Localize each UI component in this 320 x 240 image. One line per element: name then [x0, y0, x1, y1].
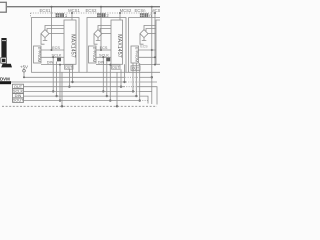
- sensor bridge diamond module 1: [41, 30, 49, 38]
- sensor bridge diamond module 2: [94, 30, 102, 38]
- svg-text:SCLK: SCLK: [99, 53, 109, 57]
- svg-text:E²PROM: E²PROM: [37, 47, 41, 62]
- junction dots module n: [151, 6, 153, 8]
- wire SCLK bus line: [24, 90, 135, 92]
- wire bridge bottom module 2: [96, 38, 101, 41]
- label OUT box module n: [131, 66, 140, 71]
- junction dots module 2: [100, 6, 102, 8]
- wire CS bus dotted top: [31, 12, 157, 14]
- svg-text:MCS2: MCS2: [120, 8, 132, 13]
- wire DOUT bus drop module 2: [109, 65, 111, 101]
- svg-text:OUT: OUT: [112, 66, 120, 70]
- wire DIN net module n: [139, 64, 157, 66]
- bus tag OUT: [13, 84, 24, 88]
- EEPROM E2PROM box module n: [131, 46, 139, 63]
- wire bridge bottom module n: [142, 38, 147, 41]
- svg-text:MAX1457: MAX1457: [116, 34, 122, 57]
- module n label: [140, 13, 148, 17]
- wire bridge INM module n: [148, 33, 156, 35]
- svg-text:OUT: OUT: [65, 66, 73, 70]
- wire OUT to DVM line drop: [72, 64, 74, 82]
- computer icon tower: [1, 38, 6, 57]
- wire +5V to VDD bus: [23, 72, 25, 77]
- DVM instrument bar: [0, 81, 11, 84]
- wire SCLK bus drop: [52, 57, 54, 91]
- wire SCLK bus drop module 2: [102, 57, 104, 91]
- module n box (clipped at right): [129, 18, 160, 73]
- wire ECSn drop: [151, 7, 153, 104]
- bus tag DOUT: [13, 98, 24, 102]
- svg-text:ECS1: ECS1: [40, 8, 52, 13]
- wire OUT bus drop module 2: [120, 69, 122, 87]
- bus tag SCLK: [13, 89, 24, 93]
- EEPROM E2PROM box module 2: [89, 46, 97, 63]
- wire bridge INM module 2: [102, 33, 111, 35]
- label OUT module 1: [65, 65, 74, 69]
- svg-text:MCS1: MCS1: [68, 8, 80, 13]
- DOUT junction block module 1: [57, 58, 61, 62]
- wire OUT bus drop: [68, 69, 70, 87]
- wire MCS1 drop: [71, 13, 73, 20]
- wire DIN net: [41, 64, 64, 66]
- svg-text:MCSn: MCSn: [151, 8, 160, 13]
- wire VDD bus line: [24, 76, 123, 78]
- computer/controller box top-left: [0, 2, 6, 12]
- wire ECS2 drop: [100, 7, 102, 50]
- module 2 box: [87, 18, 126, 73]
- wire DIN bus right bend: [140, 96, 148, 103]
- wire OUT to DVM line drop module 2: [124, 64, 126, 82]
- svg-text:DOUT: DOUT: [12, 98, 24, 103]
- wire DIN net module 2: [96, 64, 111, 66]
- wire SCLK net module 2: [96, 56, 111, 58]
- svg-text:MAX1457: MAX1457: [69, 34, 75, 57]
- wire ECS1 drop: [51, 7, 53, 50]
- wire DIN bus drop: [56, 62, 58, 97]
- module 1 label: [56, 13, 64, 17]
- module 2 label: [97, 13, 105, 17]
- EEPROM E2PROM box module 1: [34, 46, 42, 63]
- svg-text:E²PROM: E²PROM: [134, 47, 138, 62]
- wire bridge return module 2: [94, 34, 98, 45]
- wire bridge drive top: [45, 26, 64, 30]
- wire MCS2 drop: [119, 13, 121, 20]
- wire OUT bus right bend: [137, 87, 157, 105]
- svg-text:DIN: DIN: [47, 61, 54, 65]
- wire SCLK bus drop module n: [132, 63, 134, 91]
- wire GND drop module 1: [61, 72, 63, 106]
- wire DOUT bus drop module n: [139, 63, 141, 101]
- svg-text:DVM: DVM: [0, 76, 10, 81]
- svg-text:+5V: +5V: [20, 65, 28, 70]
- wire MCSn drop: [154, 13, 156, 65]
- wire SCLK net: [41, 56, 64, 58]
- wire ECS net module 2: [96, 49, 111, 51]
- wire OUT bus line: [24, 86, 125, 88]
- wire DIN bus line: [24, 95, 138, 97]
- DOUT junction block module 2: [106, 58, 110, 62]
- wire GND link between modules: [79, 71, 87, 73]
- op-amp U2 MAX1457 box: [111, 20, 123, 64]
- wire bridge return: [41, 34, 45, 45]
- wire DOUT bus drop: [59, 65, 61, 101]
- op-amp U1 MAX1457 box: [64, 20, 76, 64]
- wire DIN bus drop module n: [135, 63, 137, 96]
- svg-text:ECS: ECS: [140, 45, 148, 49]
- wire bridge drive top module n: [144, 26, 156, 30]
- wire bridge INM: [49, 33, 64, 35]
- svg-text:DIN: DIN: [98, 61, 105, 65]
- dashed boundary bottom: [2, 105, 157, 107]
- wire bridge drive top module 2: [98, 26, 111, 30]
- sensor bridge diamond module n: [140, 30, 148, 38]
- wire DIN bus drop module 2: [106, 62, 108, 97]
- svg-text:ECS: ECS: [52, 46, 60, 50]
- wire bridge INP: [47, 29, 64, 32]
- svg-text:ECS2: ECS2: [86, 8, 98, 13]
- wire bridge return module n: [140, 34, 144, 45]
- wire GND drop module 2: [116, 72, 118, 106]
- junction dots module 1: [51, 6, 53, 8]
- wire ECS net module n: [139, 49, 157, 51]
- svg-text:ECSn: ECSn: [135, 8, 147, 13]
- wire CS bus solid top: [7, 6, 160, 8]
- computer icon keyboard: [1, 64, 12, 68]
- wire DOUT bus line: [24, 100, 141, 102]
- wire bridge bottom: [43, 38, 48, 41]
- module 1 box: [32, 18, 80, 73]
- computer icon monitor: [1, 58, 7, 64]
- wire bridge INP module 2: [100, 29, 111, 32]
- wire DVM measure line: [11, 81, 126, 83]
- svg-text:OUT: OUT: [132, 67, 139, 71]
- label OUT module 2: [112, 65, 121, 69]
- wire bridge INP module n: [146, 29, 156, 32]
- bus tag DIN: [13, 94, 24, 98]
- op-amp Un MAX1457 box (clipped): [156, 20, 160, 64]
- svg-text:E²PROM: E²PROM: [92, 47, 96, 62]
- wire ECS net: [41, 49, 64, 51]
- junction dot +5V: [23, 76, 25, 78]
- wire SCLK net module n: [139, 56, 157, 58]
